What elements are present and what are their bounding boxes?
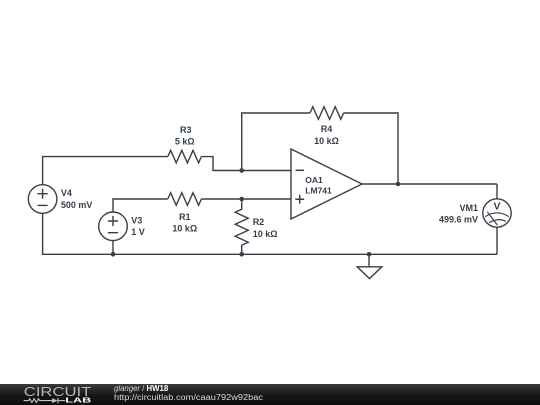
svg-text:V3: V3 (131, 216, 142, 226)
svg-text:LM741: LM741 (305, 186, 332, 196)
svg-text:R1: R1 (179, 212, 191, 222)
svg-text:10 kΩ: 10 kΩ (314, 136, 339, 146)
svg-text:VM1: VM1 (459, 203, 478, 213)
svg-text:http://circuitlab.com/caau792w: http://circuitlab.com/caau792w92bac (114, 393, 263, 402)
svg-text:499.6 mV: 499.6 mV (439, 215, 478, 225)
svg-text:V: V (493, 201, 500, 213)
svg-text:R2: R2 (253, 217, 265, 227)
svg-text:OA1: OA1 (305, 175, 323, 185)
svg-text:500 mV: 500 mV (61, 200, 93, 210)
svg-text:R4: R4 (321, 124, 333, 134)
svg-text:R3: R3 (180, 125, 192, 135)
svg-text:5 kΩ: 5 kΩ (175, 137, 195, 147)
svg-text:1 V: 1 V (131, 227, 145, 237)
svg-text:V4: V4 (61, 188, 72, 198)
svg-text:10 kΩ: 10 kΩ (172, 224, 197, 234)
svg-text:10 kΩ: 10 kΩ (253, 229, 278, 239)
svg-text:glanger / HW18: glanger / HW18 (114, 384, 169, 393)
svg-text:LAB: LAB (65, 396, 92, 405)
